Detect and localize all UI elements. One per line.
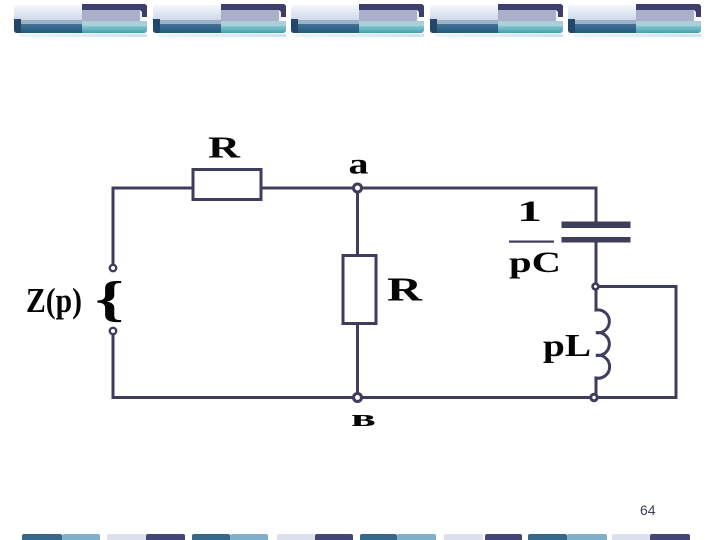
node в (junction circle) xyxy=(354,394,362,402)
resistor R2 (shunt R, vertical box) xyxy=(343,256,376,324)
wire: left vertical lower lead xyxy=(112,336,115,398)
svg-text:1: 1 xyxy=(517,195,542,228)
capacitor C top plate xyxy=(562,222,631,229)
wire: right vertical to capacitor xyxy=(595,188,598,221)
decorative top band (5 groups) xyxy=(0,0,720,1)
wire: bottom horizontal xyxy=(113,396,676,399)
svg-text:в: в xyxy=(351,406,376,432)
terminal: upper input xyxy=(110,265,116,271)
svg-text:pC: pC xyxy=(509,246,561,279)
svg-text:a: a xyxy=(349,148,369,181)
node: inductor bottom junction xyxy=(591,394,597,400)
svg-text:Z(p): Z(p) xyxy=(26,281,82,320)
wire: left vertical upper lead xyxy=(112,188,115,263)
wire: inductor bottom lead xyxy=(595,378,598,394)
node: capacitor-inductor junction xyxy=(593,284,599,290)
inductor L coils xyxy=(596,310,610,378)
svg-text:{: { xyxy=(95,270,124,326)
node a (junction circle) xyxy=(354,184,362,192)
fraction bar of capacitor value xyxy=(509,241,554,243)
resistor R1 (series R, horizontal box) xyxy=(193,170,261,200)
wire: inductor top lead xyxy=(595,289,598,310)
svg-text:R: R xyxy=(387,272,423,309)
svg-text:pL: pL xyxy=(543,327,591,363)
svg-text:R: R xyxy=(208,130,241,165)
wire: right loop (top and right side) xyxy=(599,287,676,398)
page number xyxy=(640,502,670,518)
wire: middle branch upper xyxy=(356,188,359,256)
wire: capacitor to junction xyxy=(595,243,598,283)
terminal: lower input xyxy=(110,328,116,334)
wire: top horizontal (left corner to right corner) xyxy=(113,187,596,190)
capacitor C bottom plate xyxy=(562,237,631,243)
decorative bottom strip xyxy=(0,0,720,1)
wire: middle branch lower xyxy=(356,323,359,398)
